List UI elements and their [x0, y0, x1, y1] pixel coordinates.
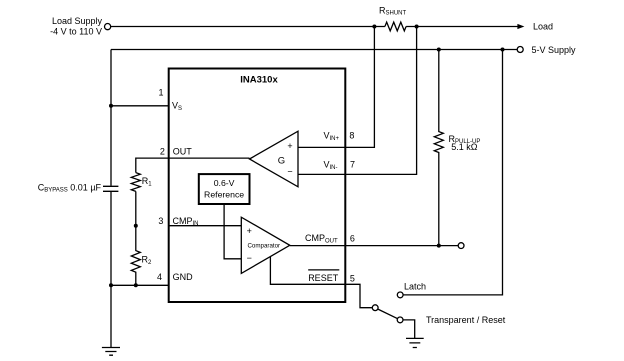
comparator triangle	[241, 217, 289, 273]
capacitor C_BYPASS	[103, 186, 118, 191]
svg-text:VIN+: VIN+	[324, 131, 340, 142]
svg-text:5-V Supply: 5-V Supply	[532, 45, 577, 55]
svg-text:Load Supply: Load Supply	[52, 16, 103, 26]
wire latch to 5-V supply	[403, 50, 502, 295]
svg-text:VIN-: VIN-	[324, 160, 338, 171]
switch pole contact	[372, 305, 378, 311]
svg-text:0.6-V: 0.6-V	[214, 178, 235, 188]
latch contact	[397, 292, 403, 298]
svg-text:-4 V to 110 V: -4 V to 110 V	[50, 27, 102, 37]
wire CMP_IN	[169, 225, 242, 227]
svg-text:7: 7	[350, 159, 355, 169]
svg-text:6: 6	[350, 233, 355, 243]
svg-text:Comparator: Comparator	[247, 242, 280, 249]
ground left	[102, 348, 120, 356]
wire OUT to R1	[136, 158, 250, 173]
junction dot rail GND	[109, 283, 113, 287]
wire throw to ground	[403, 320, 415, 338]
op-amp G triangle	[250, 131, 299, 187]
wire GND	[111, 284, 169, 286]
svg-text:Transparent / Reset: Transparent / Reset	[426, 315, 506, 325]
switch throw contact	[397, 317, 403, 323]
junction dot R1 R2	[134, 224, 138, 228]
svg-text:1: 1	[158, 88, 163, 98]
label Load Supply	[50, 16, 102, 37]
junction dot shunt left	[372, 25, 376, 29]
wire VIN+ pin 8	[298, 27, 374, 148]
junction dot pull-up top	[437, 48, 441, 52]
svg-text:−: −	[247, 253, 252, 263]
wire RESET internal	[270, 257, 345, 285]
wire left 5V rail upper	[110, 50, 112, 186]
resistor R_PULL-UP	[434, 50, 443, 246]
IC box INA310x	[169, 69, 346, 303]
svg-text:4: 4	[157, 272, 162, 282]
svg-text:Latch: Latch	[404, 281, 426, 291]
svg-text:CBYPASS 0.01 µF: CBYPASS 0.01 µF	[38, 182, 102, 193]
terminal CMP_OUT	[458, 243, 464, 249]
svg-text:8: 8	[349, 131, 354, 141]
svg-text:G: G	[278, 155, 285, 166]
terminal Load Supply	[105, 24, 111, 30]
wire reference to comparator minus	[224, 204, 241, 259]
svg-text:2: 2	[160, 146, 165, 156]
ground right	[406, 338, 424, 347]
wire R1 bottom lead	[135, 191, 137, 225]
svg-text:OUT: OUT	[173, 147, 193, 157]
svg-text:CMPOUT: CMPOUT	[305, 233, 338, 244]
wire R_SHUNT to Load arrow	[406, 26, 518, 28]
wire VS pin 1	[111, 105, 169, 107]
arrowhead Load	[517, 24, 524, 29]
svg-text:+: +	[247, 226, 252, 236]
svg-text:−: −	[287, 167, 292, 177]
svg-text:5.1 kΩ: 5.1 kΩ	[451, 142, 478, 152]
junction dot shunt right	[415, 25, 419, 29]
svg-text:R1: R1	[142, 176, 153, 187]
overline RESET	[308, 269, 339, 271]
switch blade	[378, 309, 398, 319]
junction dot latch top	[501, 48, 505, 52]
junction dot R2 GND	[134, 283, 138, 287]
resistor R_SHUNT	[385, 22, 406, 31]
svg-text:VS: VS	[172, 101, 182, 112]
wire pin 5 to switch pole	[345, 284, 372, 307]
wire load supply to R_SHUNT	[111, 26, 385, 28]
junction dot VS tap	[109, 104, 113, 108]
wire VIN- pin 7	[298, 27, 417, 175]
svg-text:R2: R2	[142, 255, 153, 266]
svg-text:3: 3	[158, 216, 163, 226]
svg-text:+: +	[287, 141, 292, 151]
svg-text:Reference: Reference	[204, 189, 244, 199]
terminal 5-V Supply	[517, 47, 523, 53]
svg-text:INA310x: INA310x	[240, 75, 278, 86]
junction dot cmp_out pull-up	[437, 244, 441, 248]
wire CMP_OUT pin 6	[290, 245, 458, 247]
resistor R2	[131, 226, 140, 286]
svg-text:RSHUNT: RSHUNT	[379, 5, 407, 16]
svg-text:GND: GND	[173, 272, 194, 282]
svg-text:5: 5	[350, 274, 355, 284]
svg-text:RESET: RESET	[308, 273, 339, 283]
svg-text:Load: Load	[533, 22, 553, 32]
reference box 0.6-V	[199, 174, 250, 204]
wire left rail lower	[110, 192, 112, 347]
resistor R1	[131, 173, 140, 192]
wire 5-V supply rail horizontal	[111, 49, 517, 51]
